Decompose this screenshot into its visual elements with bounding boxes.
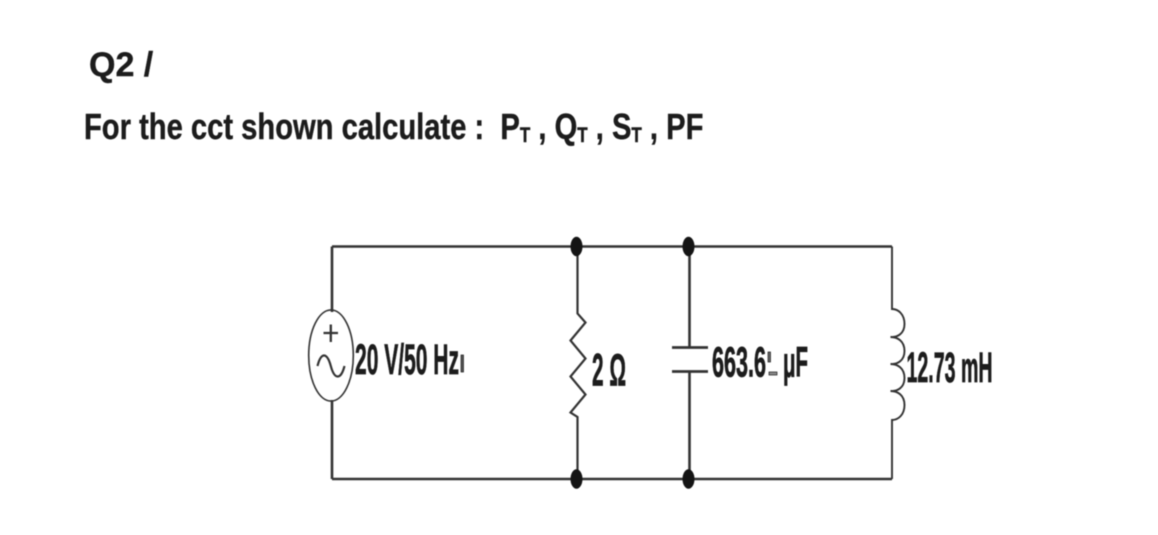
capacitor C1 bottom plate: [672, 370, 708, 373]
problem statement: [84, 109, 703, 145]
capacitor C1 bottom lead: [688, 373, 691, 480]
svg-text:20 V/50 Hz: 20 V/50 Hz: [355, 336, 459, 384]
wire bottom: [332, 478, 892, 481]
node dot bottom resistor: [571, 469, 583, 489]
wire left upper: [331, 247, 334, 313]
capacitor C1 top lead: [688, 247, 691, 347]
svg-text:12.73 mH: 12.73 mH: [907, 344, 993, 392]
wire left lower: [331, 400, 334, 479]
resistor R1 2ohm zigzag: [571, 247, 586, 480]
ac source plus sign: [324, 325, 339, 343]
title Q2: [89, 48, 153, 82]
svg-text:663.6: 663.6: [712, 339, 766, 387]
ac source sine wave: [318, 356, 345, 377]
photo artifact after 663.6: [768, 352, 771, 362]
node dot bottom capacitor: [683, 469, 695, 489]
wire top: [332, 245, 892, 248]
capacitor C1 top plate: [672, 346, 708, 349]
node dot top resistor: [571, 237, 583, 257]
node dot top capacitor: [683, 237, 695, 257]
photo artifact after Hz: [461, 355, 464, 372]
inductor L1 coil: [891, 247, 905, 480]
ac source V1 circle: [309, 310, 354, 401]
svg-text:2 Ω: 2 Ω: [592, 345, 626, 396]
svg-text:μF: μF: [783, 339, 808, 387]
